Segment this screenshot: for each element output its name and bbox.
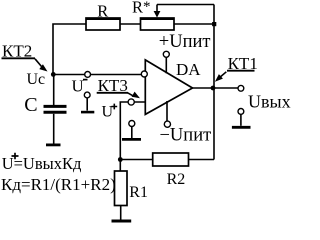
node R1/R2 junction dot	[118, 157, 123, 162]
svg-text:*: *	[143, 0, 151, 15]
resistor R* (adjustable)	[132, 0, 174, 30]
svg-text:Uвых: Uвых	[248, 92, 291, 112]
wire top-left corner from node Uc up and right to R	[53, 24, 86, 75]
junction square top right	[212, 22, 216, 26]
wire R1 to ground	[120, 206, 122, 220]
wire inverting input from node Uc	[53, 74, 141, 76]
wire non-inverting input with corner down	[120, 102, 145, 160]
svg-text:R2: R2	[167, 171, 186, 188]
op-amp DA triangle	[145, 60, 192, 115]
svg-text:C: C	[24, 94, 37, 116]
resistor R1	[115, 171, 148, 206]
label U+	[102, 104, 118, 121]
ground below capacitor C	[46, 143, 61, 146]
wire R* right end to right vertical	[174, 23, 214, 25]
node Uc dot	[51, 72, 56, 77]
wire wiper top horizontal	[157, 4, 214, 6]
wire op-amp output to terminal	[193, 87, 239, 89]
terminal U+ lower circle with ground	[122, 121, 141, 140]
wire junction to R2	[120, 159, 152, 161]
svg-text:+Uпит: +Uпит	[159, 32, 211, 52]
wire right vertical feedback	[213, 5, 215, 160]
svg-text:Кд=R1/(R1+R2): Кд=R1/(R1+R2)	[1, 175, 116, 194]
resistor R2	[153, 153, 189, 188]
power pin +Upit	[159, 32, 211, 74]
power pin -Upit	[160, 101, 212, 146]
wire capacitor C to ground	[53, 114, 55, 144]
svg-text:DA: DA	[176, 60, 201, 79]
ground below R1	[112, 220, 132, 223]
terminal U- lower circle with ground	[81, 92, 94, 112]
node output dot	[211, 86, 216, 91]
resistor R	[86, 1, 120, 30]
wire node Uc down to capacitor C	[53, 75, 55, 106]
test point KT1 label with arrow	[215, 54, 258, 82]
wire between R and R*	[120, 23, 141, 25]
wire R2 to right vertical	[189, 159, 215, 161]
formula U+=UvyhKd	[2, 153, 82, 173]
svg-text:R1: R1	[129, 184, 148, 201]
svg-text:Uс: Uс	[27, 71, 46, 88]
terminal U- upper circle on wire	[85, 72, 91, 78]
svg-text:R: R	[97, 1, 108, 20]
terminal Uvyh upper circle	[238, 85, 244, 91]
test point KT2 label with arrow	[2, 41, 48, 71]
capacitor C plates	[44, 106, 67, 112]
svg-text:U: U	[72, 77, 84, 96]
svg-text:−Uпит: −Uпит	[160, 126, 212, 146]
inverting input bubble	[141, 71, 147, 77]
terminal Uvyh lower circle with ground	[232, 109, 251, 128]
test point KT3 label with arrow	[97, 76, 140, 98]
svg-text:R: R	[132, 0, 143, 16]
wire junction to R1	[119, 160, 121, 172]
terminal U+ upper circle on wire	[128, 99, 134, 105]
label U-	[72, 77, 88, 96]
